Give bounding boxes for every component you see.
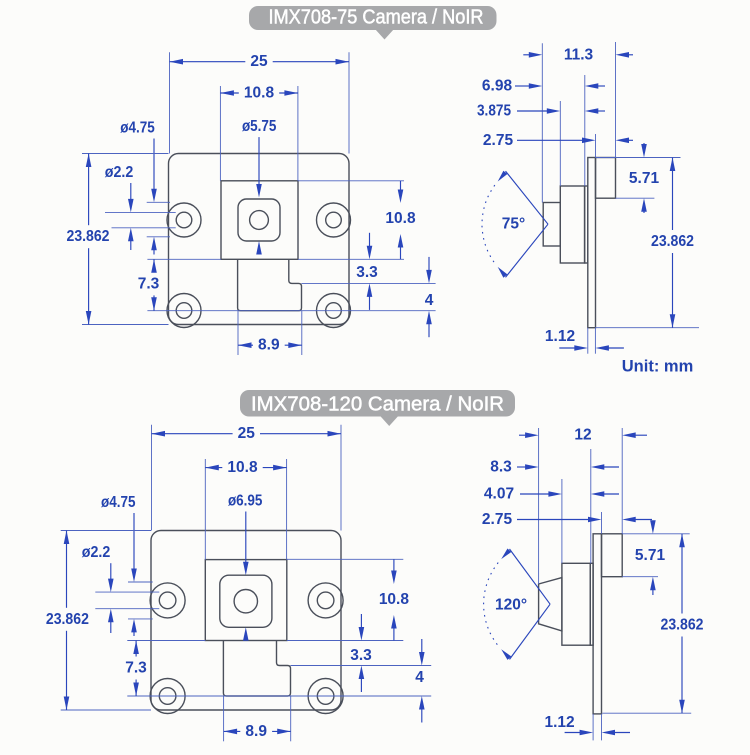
- dim 1.12 bottom: [592, 714, 594, 741]
- svg-text:4: 4: [425, 292, 434, 309]
- mounting hole bottom-right (inner): [326, 303, 342, 319]
- title bubble: IMX708-75 Camera / NoIR: [249, 6, 497, 30]
- svg-text:ø5.75: ø5.75: [242, 118, 277, 135]
- svg-text:11.3: 11.3: [564, 46, 594, 63]
- mounting hole bottom-left (outer): [167, 294, 201, 328]
- svg-text:ø6.95: ø6.95: [228, 493, 263, 510]
- svg-text:1.12: 1.12: [545, 328, 575, 345]
- side dim extension lines: [541, 43, 543, 202]
- svg-text:ø4.75: ø4.75: [101, 494, 136, 511]
- dim ø2.2 hole callout: [105, 211, 176, 213]
- sensor plate 2: [590, 563, 593, 645]
- connector block 2: [602, 534, 623, 577]
- svg-text:75°: 75°: [502, 216, 525, 233]
- dim 23.862 left: [82, 153, 169, 155]
- svg-text:12: 12: [574, 427, 591, 444]
- mounting hole top-right (outer): [317, 203, 351, 237]
- dim 4 right 2: [421, 639, 423, 656]
- dim ø2.2 hole callout 2: [95, 591, 159, 593]
- svg-text:25: 25: [250, 53, 268, 70]
- svg-text:ø4.75: ø4.75: [120, 120, 155, 137]
- sensor plate: [585, 186, 588, 263]
- lens aperture circle 2: [234, 590, 257, 613]
- mounting hole bottom-left (inner): [176, 303, 192, 319]
- svg-text:10.8: 10.8: [227, 459, 258, 476]
- dim ø4.75 hole callout 2: [128, 581, 153, 583]
- dim 25 bottom-section: [151, 425, 153, 531]
- connector block top: [596, 158, 616, 199]
- hole2 bottom-left outer: [150, 679, 185, 714]
- svg-text:4.07: 4.07: [484, 486, 514, 503]
- dim 10.8 horizontal 2: [204, 459, 206, 560]
- svg-text:10.8: 10.8: [379, 591, 410, 608]
- svg-text:3.875: 3.875: [477, 103, 511, 120]
- svg-text:25: 25: [238, 425, 256, 442]
- dim 3.3 right 2: [291, 665, 432, 667]
- hole2 top-left inner: [159, 592, 176, 609]
- hole2 top-right outer: [308, 583, 343, 618]
- hole2 bottom-right inner: [317, 688, 334, 705]
- svg-text:3.3: 3.3: [356, 264, 378, 281]
- lens housing rounded square: [238, 199, 280, 241]
- svg-text:23.862: 23.862: [46, 611, 89, 628]
- dim 3.3 right: [302, 282, 436, 284]
- svg-text:120°: 120°: [495, 597, 527, 614]
- svg-text:3.3: 3.3: [350, 647, 372, 664]
- hole2 top-left outer: [150, 583, 185, 618]
- lens barrel trapezoid: [539, 578, 562, 631]
- svg-text:ø2.2: ø2.2: [105, 164, 134, 181]
- svg-text:ø2.2: ø2.2: [82, 544, 111, 561]
- lens mount block 2: [562, 563, 590, 645]
- dim 23.862 side: [596, 327, 700, 329]
- front view IMX708-75: PCB board outline: [169, 154, 350, 325]
- dim 10.8 horizontal: [219, 86, 221, 181]
- svg-text:IMX708-120 Camera / NoIR: IMX708-120 Camera / NoIR: [251, 393, 504, 416]
- svg-text:5.71: 5.71: [629, 170, 660, 187]
- svg-text:6.98: 6.98: [482, 78, 513, 95]
- mounting hole top-left (inner): [176, 212, 192, 228]
- svg-text:23.862: 23.862: [67, 228, 110, 245]
- dim 1.12: [587, 328, 589, 354]
- svg-text:8.3: 8.3: [490, 459, 512, 476]
- svg-text:1.12: 1.12: [545, 714, 575, 731]
- svg-text:4: 4: [415, 669, 424, 686]
- mounting hole top-right (inner): [326, 212, 342, 228]
- dim 10.8 vertical right: [298, 180, 404, 182]
- svg-text:10.8: 10.8: [385, 210, 416, 227]
- 75 degree FOV cone: [506, 171, 549, 224]
- mounting hole bottom-right (outer): [317, 294, 351, 328]
- dim 5.71: [596, 157, 681, 159]
- hole2 top-right inner: [317, 592, 334, 609]
- svg-text:8.9: 8.9: [245, 723, 267, 740]
- svg-text:7.3: 7.3: [138, 275, 160, 292]
- svg-text:8.9: 8.9: [258, 337, 280, 354]
- lens housing rounded square 2: [220, 575, 272, 627]
- 120 degree FOV cone: [510, 549, 551, 604]
- svg-text:IMX708-75 Camera / NoIR: IMX708-75 Camera / NoIR: [269, 6, 484, 29]
- lens mount block: [560, 186, 584, 263]
- dim 23.862 side 2: [602, 712, 691, 714]
- side view IMX708-120: PCB edge: [593, 534, 601, 714]
- dim 4 right: [428, 257, 430, 274]
- front view IMX708-120: PCB board outline: [151, 531, 341, 711]
- flex tab outline: [238, 259, 302, 310]
- svg-text:Unit: mm: Unit: mm: [622, 358, 694, 376]
- lens barrel: [543, 203, 560, 247]
- hole2 bottom-right outer: [308, 679, 343, 714]
- flex tab outline 2: [223, 641, 290, 697]
- hole2 bottom-left inner: [159, 688, 176, 705]
- side view IMX708-75: PCB edge: [588, 158, 596, 328]
- dim 8.9 bottom 2: [223, 696, 225, 741]
- dim 10.8 vertical 2: [287, 558, 404, 560]
- svg-text:2.75: 2.75: [482, 511, 513, 528]
- svg-text:10.8: 10.8: [244, 85, 275, 102]
- mounting hole top-left (outer): [167, 203, 201, 237]
- svg-text:23.862: 23.862: [651, 233, 694, 250]
- sensor square 2: [205, 560, 286, 641]
- svg-text:23.862: 23.862: [661, 617, 704, 634]
- svg-text:2.75: 2.75: [483, 132, 514, 149]
- side 2 extension lines: [538, 428, 540, 584]
- dim 8.9 bottom: [237, 311, 239, 355]
- dim 5.71 bottom: [622, 533, 690, 535]
- dim 7.3 left: [147, 258, 221, 260]
- svg-text:5.71: 5.71: [635, 547, 666, 564]
- svg-text:7.3: 7.3: [125, 660, 147, 677]
- dim ø4.75 hole callout: [147, 201, 170, 203]
- dim 25 top: [169, 52, 171, 153]
- lens aperture circle: [250, 211, 269, 230]
- title bubble: IMX708-120 Camera / NoIR: [240, 390, 515, 417]
- sensor square: [221, 181, 298, 259]
- dim 7.3 left 2: [127, 640, 205, 642]
- dim 23.862 left 2: [61, 530, 151, 532]
